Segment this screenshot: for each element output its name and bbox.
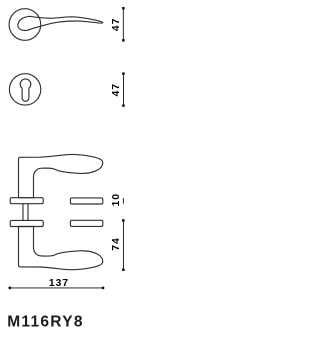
spindle left line	[22, 204, 24, 221]
svg-text:47: 47	[111, 18, 122, 32]
svg-text:47: 47	[111, 83, 122, 97]
dimension line 47 (escutcheon)	[123, 74, 125, 106]
dimension line 137 (side view)	[10, 287, 103, 289]
dimension line 47 (front view)	[122, 8, 124, 40]
svg-text:137: 137	[49, 278, 69, 289]
dot bottom of first 47 line	[122, 39, 125, 42]
keyhole	[20, 79, 31, 101]
dot top of second 47 line	[122, 72, 125, 75]
svg-text:M116RY8: M116RY8	[7, 314, 84, 331]
dimension line 74 (side view)	[122, 220, 124, 269]
dot bottom of second 47 line	[122, 104, 125, 107]
escutcheon circle	[9, 74, 40, 105]
side view: upper lever	[19, 154, 103, 197]
lever handle front view outline	[18, 16, 103, 30]
side view: lower lever (mirror)	[19, 227, 103, 270]
dot left of 137 line	[8, 287, 11, 290]
dot top of first 47 line	[122, 7, 125, 10]
rose circle (front view)	[9, 9, 41, 41]
svg-text:74: 74	[111, 237, 122, 251]
handle rose plate lower (side view)	[10, 220, 43, 226]
dot right of 137 line	[102, 287, 105, 290]
dot top of 74 line	[122, 219, 125, 222]
spindle right line	[27, 204, 29, 221]
dimension tick 10 (side view)	[122, 198, 124, 204]
dot bottom of 74 line	[122, 269, 125, 272]
escutcheon plate lower (side view)	[70, 220, 102, 226]
svg-text:10: 10	[111, 193, 122, 207]
handle rose plate upper (side view)	[10, 198, 43, 204]
escutcheon plate upper (side view)	[70, 198, 102, 204]
